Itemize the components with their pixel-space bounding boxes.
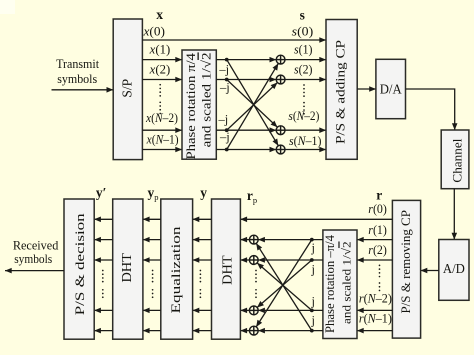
block Channel [441, 130, 469, 189]
junction dot row r(N-2) [310, 309, 314, 313]
svg-text:j: j [310, 241, 314, 255]
wire r(2) into phase block [357, 259, 392, 261]
wire r_p(1) adder to DHT [240, 239, 249, 241]
wire r_p(N-1) row from phase block to adder [258, 330, 323, 332]
ellipsis left of adders (bottom) [255, 270, 257, 298]
wire Channel to A/D [453, 189, 455, 240]
wire s(1) row from phase block to adder [216, 59, 276, 61]
wire cross r(N-1) to r_p(1) adder [256, 243, 312, 330]
wire x(0) row (S/P to P/S &amp; adding CP) [142, 39, 326, 41]
ellipsis gap DHT-Equalization [200, 270, 202, 298]
svg-text:s: s [300, 7, 305, 22]
wire s(2) adder to P/S block [285, 79, 326, 81]
adder for r_p(N-1) [249, 326, 258, 335]
svg-text:r(2): r(2) [368, 243, 387, 257]
svg-text:y: y [200, 185, 207, 200]
wire s(N-1) row from phase block to adder [216, 149, 276, 151]
block P/S and removing CP [392, 200, 420, 338]
wire y row2 DHT to Equalization [193, 239, 212, 241]
wire x(2) into phase block [142, 79, 182, 81]
wire yprime row2 DHT to P/S decision [94, 239, 113, 241]
wire r(N-2) into phase block [357, 309, 392, 311]
svg-text:Channel: Channel [450, 138, 464, 183]
block D/A converter [376, 59, 406, 118]
wire x(1) into phase block [142, 59, 182, 61]
svg-text:symbols: symbols [57, 71, 97, 86]
wire r(N-1) into phase block [357, 330, 392, 332]
svg-text:Phase rotation π/4: Phase rotation π/4 [183, 52, 198, 159]
ellipsis between r(2) and r(N-2) [379, 265, 381, 292]
wire y row4 DHT to Equalization [193, 309, 212, 311]
adder for s(1) [276, 55, 285, 64]
svg-text:and scaled 1/√2: and scaled 1/√2 [199, 52, 214, 147]
wire r(0) row (P/S removing to DHT) [240, 218, 392, 220]
adder for r_p(2) [249, 256, 258, 265]
wire cross x(1) to s(N-1) adder [227, 60, 279, 146]
svg-text:j: j [310, 295, 314, 309]
wire y_p row2 Equalization to DHT [143, 239, 161, 241]
wire r(1) into phase block [357, 239, 392, 241]
block DHT (receive, first) [212, 199, 241, 339]
ellipsis gap Equalization-DHT [152, 270, 154, 298]
wire r_p(2) adder to DHT [240, 259, 249, 261]
svg-text:x(0): x(0) [142, 25, 165, 39]
svg-text:j: j [310, 314, 314, 328]
adder for s(N-2) [276, 126, 285, 135]
svg-text:r(N–2): r(N–2) [359, 291, 392, 305]
svg-text:Transmit: Transmit [56, 56, 99, 71]
svg-text:DHT: DHT [119, 252, 134, 282]
wire y_p row3 Equalization to DHT [143, 259, 161, 261]
adder for s(2) [276, 75, 285, 84]
wire P/S to D/A [357, 88, 376, 90]
wire D/A to Channel [406, 89, 455, 130]
wire s(2) row from phase block to adder [216, 79, 276, 81]
wire cross x(2) to s(N-2) adder [227, 80, 278, 128]
wire s(N-1) adder to P/S block [285, 149, 326, 151]
junction dot row x(1) [225, 58, 229, 62]
wire transmit input arrow [52, 89, 114, 91]
adder for r_p(1) [249, 235, 258, 244]
svg-text:x(N–1): x(N–1) [146, 132, 179, 146]
wire y row5 DHT to Equalization [193, 330, 212, 332]
wire s(1) adder to P/S block [285, 59, 326, 61]
block P/S and decision [64, 199, 94, 339]
svg-text:P/S & adding CP: P/S & adding CP [333, 40, 348, 144]
svg-text:P/S & decision: P/S & decision [72, 213, 87, 316]
wire cross x(N-1) to s(1) adder [227, 63, 279, 149]
svg-text:s(2): s(2) [294, 63, 313, 77]
block Equalization [161, 199, 193, 339]
wire A/D to P/S removing CP [421, 270, 439, 272]
svg-text:x(1): x(1) [149, 43, 171, 57]
svg-text:r: r [376, 188, 382, 203]
block U1 phase rotation pi/4 and scaled 1/sqrt2 [182, 50, 216, 159]
wire x(N-2) into phase block [142, 129, 182, 131]
wire s(N-2) adder to P/S block [285, 129, 326, 131]
svg-text:–j: –j [219, 81, 230, 95]
svg-text:–j: –j [219, 130, 230, 144]
svg-text:s(N–2): s(N–2) [288, 109, 319, 123]
svg-text:y′: y′ [96, 185, 107, 200]
wire r_p(2) row from phase block to adder [258, 259, 323, 261]
wire yprime row1 DHT to P/S decision [94, 218, 113, 220]
wire cross r(2) to r_p(N-2) adder [257, 260, 312, 308]
wire s(N-2) row from phase block to adder [216, 129, 276, 131]
wire received output arrow [5, 270, 64, 272]
block A/D converter [439, 240, 469, 301]
svg-text:r(0): r(0) [368, 202, 387, 216]
svg-text:s(0): s(0) [292, 25, 314, 39]
ellipsis gap P/S decision-DHT [102, 270, 104, 298]
wire y_p row1 Equalization to DHT [143, 218, 161, 220]
wire yprime row3 DHT to P/S decision [94, 259, 113, 261]
wire y_p row5 Equalization to DHT [143, 330, 161, 332]
wire yprime row4 DHT to P/S decision [94, 309, 113, 311]
adder for s(N-1) [276, 145, 285, 154]
svg-text:–j: –j [218, 112, 229, 126]
junction dot row x(2) [225, 78, 229, 82]
ellipsis between x(2) and x(N-2) [159, 84, 161, 114]
wire y row3 DHT to Equalization [193, 259, 212, 261]
wire r_p(N-1) adder to DHT [240, 330, 249, 332]
svg-text:j: j [310, 262, 314, 276]
svg-text:–j: –j [218, 63, 229, 77]
junction dot row r(2) [310, 258, 314, 262]
svg-text:r(1): r(1) [368, 223, 387, 237]
adder for r_p(N-2) [249, 306, 258, 315]
block DHT (receive, second) [113, 199, 143, 339]
wire x(N-1) into phase block [142, 149, 182, 151]
wire yprime row5 DHT to P/S decision [94, 330, 113, 332]
svg-text:x(2): x(2) [149, 63, 171, 77]
junction dot row r(1) [310, 238, 314, 242]
block P/S and adding CP [326, 20, 357, 160]
svg-text:P/S & removing CP: P/S & removing CP [399, 210, 413, 314]
svg-text:and scaled 1/√2: and scaled 1/√2 [339, 241, 353, 324]
junction dot row x(N-1) [225, 148, 229, 152]
wire cross r(N-2) to r_p(2) adder [257, 263, 312, 311]
svg-text:s(1): s(1) [294, 43, 313, 57]
svg-text:Equalization: Equalization [168, 226, 183, 314]
junction dot row x(N-2) [225, 128, 229, 132]
wire r_p(N-2) row from phase block to adder [258, 309, 323, 311]
svg-text:x: x [156, 7, 163, 22]
svg-text:A/D: A/D [443, 261, 465, 276]
svg-text:DHT: DHT [220, 255, 235, 285]
svg-text:x(N–2): x(N–2) [145, 111, 178, 125]
wire r_p(N-2) adder to DHT [240, 309, 249, 311]
block U2 phase rotation -pi/4 and scaled 1/sqrt2 [323, 230, 357, 339]
block S/P (serial-to-parallel) [113, 19, 142, 160]
svg-text:r(N–1): r(N–1) [359, 311, 392, 325]
svg-text:D/A: D/A [380, 81, 402, 96]
ellipsis between s(2) and s(N-2) [303, 84, 305, 114]
svg-text:s(N–1): s(N–1) [289, 134, 322, 148]
svg-text:S/P: S/P [120, 79, 135, 98]
svg-text:Phase rotation –π/4: Phase rotation –π/4 [323, 234, 337, 333]
wire cross x(N-2) to s(2) adder [227, 83, 278, 131]
wire y row1 DHT to Equalization [193, 218, 212, 220]
wire y_p row4 Equalization to DHT [143, 309, 161, 311]
wire cross r(1) to r_p(N-1) adder [256, 240, 312, 327]
wire r_p(1) row from phase block to adder [258, 239, 323, 241]
svg-text:symbols: symbols [14, 251, 52, 266]
junction dot row r(N-1) [310, 329, 314, 333]
